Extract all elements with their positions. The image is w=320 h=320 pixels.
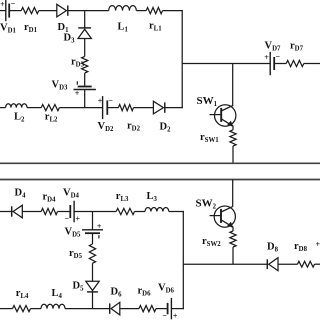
svg-text:+: + <box>173 312 178 320</box>
transistor SW2 emitter lead <box>221 220 233 228</box>
resistor r_D6 <box>139 306 156 312</box>
transistor SW2 base bar <box>220 209 222 223</box>
wire V_D4 to node B <box>74 211 92 213</box>
transistor SW2 emitter arrow <box>227 222 233 228</box>
resistor r_D4 <box>41 208 57 214</box>
wire r_L3 to L3 <box>135 211 146 213</box>
wire D5 to bottom branch <box>92 292 94 309</box>
transistor SW1 emitter arrow <box>227 121 233 127</box>
minus sign of V_D3 <box>76 81 78 84</box>
transistor SW1 base bar <box>220 108 222 122</box>
battery V_D2 <box>102 96 104 119</box>
wire r_L4 to L4 <box>31 308 42 310</box>
resistor r_SW2 <box>230 231 236 247</box>
diode D6 <box>111 302 120 315</box>
wire r_D5 to D5 <box>92 263 94 281</box>
wire V_D3 to bottom branch <box>84 90 86 108</box>
wire output branch 2 left part <box>183 263 267 265</box>
wire r_D4 to V_D4 <box>58 211 71 213</box>
wire bus 2 down to SW2 collector <box>232 180 234 207</box>
diode D2 <box>153 101 163 114</box>
wire r_L2 to V_D2 <box>59 107 102 109</box>
battery V_D1 <box>5 0 7 21</box>
wire left edge to V_D1 <box>0 10 6 12</box>
battery V_D5 <box>82 229 103 231</box>
wire node B to r_L3 <box>93 211 117 213</box>
transistor SW1 collector lead <box>221 106 233 111</box>
diode D8 <box>269 258 278 271</box>
svg-text:+: + <box>316 240 320 249</box>
wire L1 to r_L1 <box>136 10 146 12</box>
wire L3 to corner <box>169 211 184 213</box>
resistor r_D3 <box>82 56 88 73</box>
resistor r_D8 <box>298 261 315 267</box>
svg-text:−: − <box>162 311 167 320</box>
wire V_D7 to r_D7 <box>274 63 286 65</box>
resistor r_D5 <box>89 244 95 263</box>
transistor SW1 body <box>215 105 236 126</box>
wire V_D1 to r_D1 <box>9 10 21 12</box>
wire left edge to D4 <box>0 211 12 213</box>
diode D3 <box>78 27 91 29</box>
battery V_D4 <box>73 201 75 223</box>
wire V_D2 to r_D2 <box>107 107 118 109</box>
svg-text:−: − <box>65 214 70 223</box>
transistor SW2 base lead <box>210 215 222 217</box>
wire r_D1 to D1 <box>39 10 57 12</box>
wire node A down to D3 <box>84 11 86 28</box>
wire D2 to corner <box>165 107 183 109</box>
resistor r_L2 <box>41 105 59 111</box>
svg-text:+: + <box>0 0 5 9</box>
resistor r_L4 <box>13 306 31 312</box>
diode D1 <box>57 4 67 17</box>
wire D1 to node A <box>68 10 85 12</box>
svg-text:−: − <box>108 96 113 105</box>
wire r_D3 to V_D3 <box>84 73 86 87</box>
wire vertical right side of loop 2 <box>182 211 184 309</box>
wire SW2 emitter to r_SW2 <box>232 227 234 231</box>
wire r_SW1 to bus 1 <box>232 146 234 163</box>
diode D4 <box>13 205 22 218</box>
wire node C to D6 <box>93 308 110 310</box>
wire r_SW2 to output branch 2 <box>232 247 234 264</box>
transistor SW1 emitter lead <box>221 119 233 127</box>
svg-text:+: + <box>97 222 102 231</box>
resistor r_SW1 <box>230 130 236 146</box>
svg-text:+: + <box>75 89 80 98</box>
transistor SW1 base lead <box>210 114 222 116</box>
diode D5 <box>86 281 99 290</box>
wire r_L1 to corner <box>163 10 183 12</box>
minus sign of V_D5 <box>98 235 100 238</box>
wire node A to L1 <box>85 10 109 12</box>
wire output branch 1 left part <box>182 63 270 65</box>
resistor r_D7 <box>286 60 304 66</box>
wire node B down to V_D5 <box>92 212 94 230</box>
resistor r_D2 <box>118 105 133 111</box>
resistor r_D1 <box>21 8 39 14</box>
battery V_D3 <box>74 89 96 91</box>
inductor L3 <box>145 207 169 211</box>
wire D8 to r_D8 <box>278 263 298 265</box>
wire D6 to r_D6 <box>120 308 139 310</box>
inductor L1 <box>109 6 137 11</box>
svg-text:+: + <box>76 215 81 224</box>
transistor SW2 collector lead <box>221 207 233 212</box>
svg-text:+: + <box>98 97 103 106</box>
inductor L4 <box>41 304 65 308</box>
svg-text:−: − <box>11 0 16 8</box>
wire L4 to node C <box>65 308 93 310</box>
battery V_D6 <box>170 298 172 319</box>
wire r_D2 to D2 <box>134 107 154 109</box>
inductor L2 <box>6 104 27 108</box>
wire r_D7 to right edge <box>304 63 320 65</box>
resistor r_L3 <box>116 208 134 214</box>
wire left edge to r_L4 <box>0 308 13 310</box>
wire D3 to r_D3 <box>84 39 86 57</box>
wire SW1 emitter to r_SW1 <box>232 126 234 130</box>
svg-text:+: + <box>264 53 269 62</box>
battery V_D7 <box>269 52 271 75</box>
transistor SW2 body <box>214 206 235 227</box>
wire r_D8 to right edge <box>315 263 320 265</box>
wire V_D6 to corner <box>171 308 184 310</box>
wire D4 to r_D4 <box>22 211 41 213</box>
wire L2 to r_L2 <box>27 107 41 109</box>
svg-text:−: − <box>276 52 281 61</box>
wire r_D6 to V_D6 <box>156 308 168 310</box>
resistor r_L1 <box>146 8 162 14</box>
wire left edge to L2 <box>0 107 6 109</box>
wire vertical right side of loop 1 <box>181 10 183 108</box>
bus wire lower <box>0 179 320 181</box>
wire output node down to SW1 collector <box>232 64 234 107</box>
bus wire upper <box>0 162 320 164</box>
wire V_D5 to r_D5 <box>92 233 94 244</box>
